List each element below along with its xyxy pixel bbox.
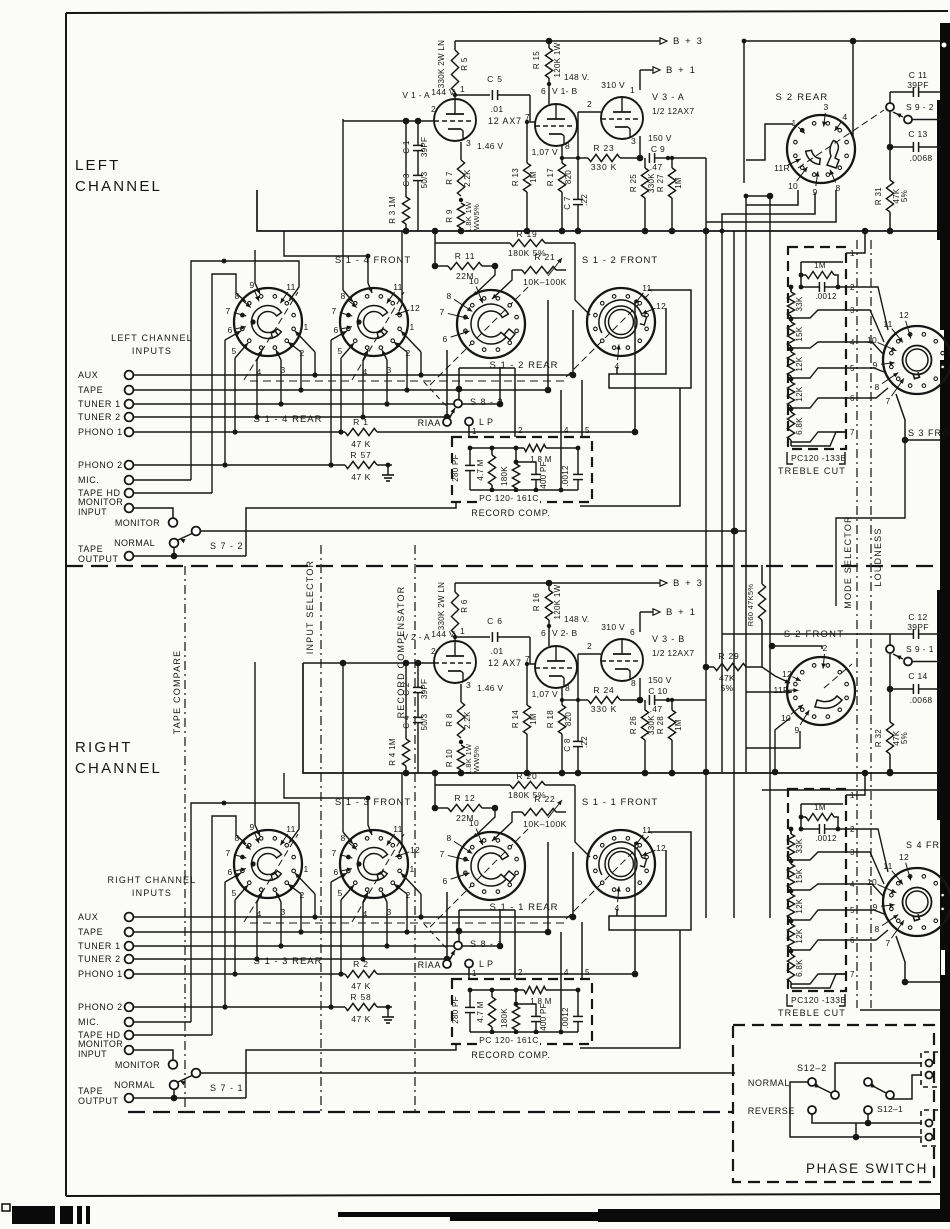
svg-text:R 58: R 58 — [350, 992, 371, 1002]
svg-text:3: 3 — [386, 365, 391, 375]
svg-text:B + 3: B + 3 — [673, 36, 703, 47]
svg-text:1: 1 — [791, 118, 796, 128]
svg-text:120K 1W: 120K 1W — [553, 42, 562, 77]
svg-text:148 V.: 148 V. — [564, 614, 590, 624]
svg-text:150 V: 150 V — [648, 133, 672, 143]
svg-text:OUTPUT: OUTPUT — [78, 554, 119, 564]
svg-text:MONITOR: MONITOR — [115, 518, 160, 528]
rotary switch S1-2 REAR — [457, 290, 525, 358]
trunk wire x734 — [733, 231, 735, 918]
svg-text:1,07 V: 1,07 V — [532, 689, 558, 699]
svg-text:1: 1 — [303, 322, 308, 332]
wire treble pin1 feed LEFT — [846, 231, 865, 253]
svg-text:1: 1 — [472, 969, 477, 978]
svg-text:9: 9 — [249, 822, 254, 832]
svg-text:TREBLE CUT: TREBLE CUT — [778, 466, 846, 476]
svg-text:2: 2 — [587, 641, 592, 651]
svg-text:TAPE: TAPE — [78, 927, 103, 937]
wire S1-2 outer loop — [580, 388, 680, 506]
svg-text:330K: 330K — [647, 715, 656, 735]
rotary switch S1-1 REAR — [457, 832, 525, 900]
loudness boundary line — [870, 240, 872, 1008]
capacitor .0012 RIGHT — [573, 1015, 583, 1017]
svg-text:11: 11 — [393, 824, 402, 834]
svg-text:12: 12 — [782, 669, 792, 679]
resistor R7 2.2K — [460, 142, 462, 160]
resistor 1M treble LEFT — [799, 273, 804, 278]
svg-text:C 5: C 5 — [487, 74, 503, 84]
svg-text:8: 8 — [874, 382, 879, 392]
wire input TAPE HD LEFT — [133, 492, 212, 494]
rotary switch S1-3 FRONT — [340, 830, 408, 898]
capacitor C10 .47 — [648, 695, 650, 705]
svg-text:11: 11 — [393, 282, 402, 292]
svg-text:RECORD COMP.: RECORD COMP. — [471, 1050, 550, 1060]
svg-text:R 20: R 20 — [516, 771, 537, 781]
svg-text:8: 8 — [234, 833, 239, 843]
svg-text:330K 2W LN: 330K 2W LN — [437, 40, 446, 88]
svg-text:R 31: R 31 — [874, 187, 883, 205]
svg-text:6: 6 — [442, 876, 447, 886]
record comp part number PC 120- 161C — [478, 492, 540, 504]
resistor R6 330K 2W LN — [454, 583, 456, 592]
svg-text:1.8 M: 1.8 M — [530, 455, 552, 464]
svg-text:B + 1: B + 1 — [666, 607, 696, 618]
capacitor C5 .01 coupling — [455, 94, 490, 96]
svg-text:6: 6 — [333, 867, 338, 877]
wire monitor feed S7-1 — [200, 1072, 735, 1074]
svg-text:11R: 11R — [774, 163, 790, 173]
wire TAPE HD riser RIGHT — [212, 816, 246, 1035]
wire TAPE HD riser LEFT — [212, 274, 246, 493]
svg-text:47K: 47K — [719, 673, 735, 683]
scan artifact right edge strip — [940, 23, 950, 1211]
wire S4 FRONT pin7 down — [896, 936, 905, 982]
rotary switch S1-3 REAR — [234, 830, 302, 898]
svg-text:6.8K: 6.8K — [795, 959, 804, 977]
svg-text:S 8 - 1: S 8 - 1 — [470, 939, 504, 949]
svg-text:PC 120- 161C: PC 120- 161C — [479, 1035, 539, 1045]
svg-text:WW5%: WW5% — [472, 746, 481, 772]
wire S1-1 front loop — [609, 832, 691, 930]
wire input AUX RIGHT — [133, 916, 573, 918]
svg-text:1/2 12AX7: 1/2 12AX7 — [652, 648, 694, 658]
svg-text:L P: L P — [479, 959, 493, 969]
wire y529 cross — [735, 530, 746, 532]
svg-text:S12–1: S12–1 — [877, 1104, 903, 1114]
wire grid V3-A — [578, 111, 601, 113]
svg-text:INPUTS: INPUTS — [132, 888, 172, 898]
svg-text:6: 6 — [227, 325, 232, 335]
svg-text:INPUT SELECTOR: INPUT SELECTOR — [305, 560, 315, 655]
svg-text:7: 7 — [225, 306, 230, 316]
svg-text:9: 9 — [794, 725, 799, 735]
svg-text:CHANNEL: CHANNEL — [75, 760, 162, 777]
svg-text:R 17: R 17 — [546, 168, 555, 186]
svg-text:OUTPUT: OUTPUT — [78, 1096, 119, 1106]
capacitor C12 39PF — [889, 634, 891, 645]
svg-text:6: 6 — [227, 867, 232, 877]
svg-text:V 3 - B: V 3 - B — [652, 634, 685, 644]
svg-text:39PF: 39PF — [907, 80, 929, 90]
wire pot feeds LEFT — [473, 266, 495, 296]
triode V1-B 12AX7 second half — [535, 104, 577, 146]
treble cut network PC120 -133B box — [788, 247, 846, 449]
svg-text:.0012: .0012 — [815, 292, 837, 301]
svg-text:7: 7 — [439, 307, 444, 317]
svg-text:330 K: 330 K — [591, 704, 617, 714]
svg-text:4: 4 — [256, 909, 261, 919]
rotary switch S1-2 FRONT — [587, 288, 655, 356]
ground below R57 — [387, 465, 389, 468]
scan artifact bottom-left bars — [12, 1206, 55, 1224]
svg-text:4.7 M: 4.7 M — [476, 1001, 485, 1023]
wire S9-1 out — [912, 661, 941, 663]
wire input MIC. RIGHT — [133, 1021, 191, 1023]
capacitor C13 .0068 — [889, 111, 891, 147]
wire input TAPE RIGHT — [133, 931, 548, 933]
wire input TUNER 1 RIGHT — [133, 945, 500, 947]
svg-text:330K 2W LN: 330K 2W LN — [437, 582, 446, 630]
svg-text:6.8K: 6.8K — [795, 417, 804, 435]
svg-text:330K: 330K — [647, 173, 656, 193]
resistor R5 330K 2W LN — [454, 41, 456, 50]
record compensator network PC 120- 161C box — [452, 979, 592, 1044]
resistor 180K RIGHT — [515, 990, 517, 1004]
resistor R3 1M — [402, 197, 409, 224]
rotary switch S3 FRONT — [883, 326, 950, 394]
switch S8-1 lever — [449, 950, 455, 961]
cathode bus right — [303, 663, 940, 773]
svg-text:MONITOR: MONITOR — [115, 1060, 160, 1070]
svg-text:148 V.: 148 V. — [564, 72, 590, 82]
svg-text:8: 8 — [874, 924, 879, 934]
triode V3-A half 12AX7 — [601, 97, 643, 139]
svg-text:4: 4 — [362, 909, 367, 919]
svg-text:1: 1 — [409, 864, 414, 874]
wire top feed B LEFT — [255, 250, 260, 294]
resistor R27 1M — [671, 158, 673, 168]
rotary switch S2 REAR — [787, 115, 855, 183]
wire top feed C RIGHT — [399, 773, 402, 853]
svg-text:PC 120- 161C: PC 120- 161C — [479, 493, 539, 503]
resistor R19 180K 5% — [434, 231, 436, 243]
svg-text:400 PF: 400 PF — [539, 461, 548, 489]
svg-text:C 10: C 10 — [648, 686, 667, 696]
resistor R25 330K — [641, 168, 648, 198]
svg-text:12: 12 — [656, 843, 666, 853]
svg-text:7: 7 — [885, 396, 890, 406]
wire treble top LEFT — [800, 262, 802, 287]
svg-text:1M: 1M — [529, 171, 538, 183]
svg-text:1.8 M: 1.8 M — [530, 997, 552, 1006]
svg-text:5%: 5% — [721, 683, 734, 693]
wire S3 to S2F — [836, 440, 905, 606]
wire cathode V3-B — [639, 678, 641, 700]
svg-text:12K: 12K — [795, 386, 804, 401]
svg-text:820: 820 — [564, 712, 573, 726]
svg-text:R 9: R 9 — [445, 209, 454, 223]
wires treble to S3 FRONT — [846, 287, 888, 330]
svg-text:RIAA: RIAA — [418, 960, 441, 970]
svg-text:2: 2 — [587, 99, 592, 109]
svg-text:7: 7 — [225, 848, 230, 858]
svg-text:12: 12 — [410, 845, 420, 855]
resistor R26 330K — [641, 710, 648, 740]
svg-text:3: 3 — [466, 138, 471, 148]
svg-text:.0012: .0012 — [561, 1007, 570, 1029]
switch S9-2 moving contact — [886, 103, 894, 111]
svg-text:S12–2: S12–2 — [797, 1063, 827, 1073]
svg-text:15K: 15K — [795, 326, 804, 341]
svg-text:10: 10 — [867, 335, 877, 345]
B+3 terminal left — [660, 38, 667, 44]
svg-text:6: 6 — [333, 325, 338, 335]
wire record comp pin4 RIGHT — [560, 979, 562, 1032]
svg-text:S 2 REAR: S 2 REAR — [776, 92, 829, 103]
svg-text:INPUT: INPUT — [78, 507, 107, 517]
svg-text:11F: 11F — [774, 685, 789, 695]
wire top feed A LEFT — [284, 231, 372, 293]
svg-text:3: 3 — [386, 907, 391, 917]
section divider dashed line lower — [128, 1111, 733, 1113]
wire input TAPE LEFT — [133, 389, 548, 391]
resistor 180K LEFT — [515, 448, 517, 462]
svg-text:RIAA: RIAA — [418, 418, 441, 428]
svg-text:.22: .22 — [580, 194, 589, 206]
svg-text:PHASE SWITCH: PHASE SWITCH — [806, 1161, 928, 1176]
svg-text:AUX: AUX — [78, 912, 98, 922]
svg-text:8: 8 — [446, 291, 451, 301]
svg-text:6: 6 — [541, 86, 546, 96]
svg-text:TUNER 2: TUNER 2 — [78, 412, 121, 422]
wire treble pin1 feed RIGHT — [846, 773, 865, 795]
svg-text:1: 1 — [409, 322, 414, 332]
wires treble to S4 FRONT — [846, 829, 888, 872]
svg-text:RECORD COMP.: RECORD COMP. — [471, 508, 550, 518]
svg-text:R 4 1M: R 4 1M — [388, 738, 397, 766]
reverse contacts — [808, 1106, 816, 1114]
svg-text:LEFT: LEFT — [75, 157, 120, 174]
svg-text:310 V: 310 V — [601, 80, 625, 90]
wire S2F lower pins — [775, 718, 790, 772]
record comp part number PC 120- 161C — [478, 1034, 540, 1046]
capacitor .0012 treble LEFT — [799, 285, 804, 290]
svg-text:12: 12 — [656, 301, 666, 311]
resistor R18 820 — [561, 688, 563, 705]
wire B+3 rail left — [455, 40, 660, 42]
border frame — [66, 11, 948, 13]
triode V2-A 12AX7 first half — [434, 641, 476, 683]
phase switch box — [733, 1025, 934, 1182]
svg-text:4.7 M: 4.7 M — [476, 459, 485, 481]
svg-text:C 9: C 9 — [651, 144, 665, 154]
wire input PHONO 1 RIGHT — [133, 973, 345, 975]
capacitor .0012 LEFT — [573, 473, 583, 475]
capacitor C6 .01 coupling — [455, 636, 490, 638]
svg-text:TUNER 1: TUNER 1 — [78, 399, 121, 409]
resistor R28 1M — [671, 700, 673, 710]
svg-text:2.2K: 2.2K — [463, 711, 472, 729]
resistor chain treble RIGHT — [790, 829, 792, 834]
resistor R32 47K 5% — [889, 689, 891, 722]
svg-text:50/3: 50/3 — [420, 171, 429, 188]
svg-text:R 26: R 26 — [629, 716, 638, 734]
svg-text:8: 8 — [565, 141, 570, 151]
wire input TUNER 2 LEFT — [133, 416, 447, 418]
svg-text:820: 820 — [564, 170, 573, 184]
resistor R15 120K 1W — [548, 41, 550, 48]
wire bus2 right tail — [762, 789, 940, 791]
svg-text:8: 8 — [234, 291, 239, 301]
capacitor 280PF LEFT — [465, 464, 475, 466]
svg-text:R 16: R 16 — [532, 593, 541, 611]
svg-text:47 K: 47 K — [351, 981, 371, 991]
svg-text:LOUDNESS: LOUDNESS — [873, 527, 883, 586]
svg-text:C 6: C 6 — [487, 616, 503, 626]
svg-text:12: 12 — [899, 852, 909, 862]
wire S2 rear pin1 left — [746, 124, 793, 160]
svg-text:PC120 -133B: PC120 -133B — [791, 453, 846, 463]
svg-text:S 9 - 1: S 9 - 1 — [906, 644, 934, 654]
svg-text:S 1 - 2 REAR: S 1 - 2 REAR — [489, 360, 558, 371]
svg-text:12K: 12K — [795, 928, 804, 943]
svg-text:1/2 12AX7: 1/2 12AX7 — [652, 106, 694, 116]
wire grid V1-A to selector — [343, 120, 434, 122]
svg-text:6: 6 — [630, 627, 635, 637]
svg-text:10K–100K: 10K–100K — [523, 819, 567, 829]
mode selector boundary line — [856, 240, 858, 1008]
svg-text:S 4 FR: S 4 FR — [906, 840, 940, 850]
svg-text:.47: .47 — [650, 704, 663, 714]
svg-text:S 7 - 1: S 7 - 1 — [210, 1083, 244, 1093]
triode V2-B 12AX7 second half — [535, 646, 577, 688]
svg-text:7: 7 — [439, 849, 444, 859]
switch S8-1 link — [456, 928, 463, 935]
svg-text:S 1 - 2 FRONT: S 1 - 2 FRONT — [582, 255, 658, 266]
treble part number PC120 -133B — [787, 452, 793, 464]
svg-text:4: 4 — [564, 426, 569, 435]
trunk wire x705 — [705, 158, 707, 918]
svg-text:MONITOR: MONITOR — [78, 497, 123, 507]
svg-text:TUNER 1: TUNER 1 — [78, 941, 121, 951]
resistor R9 1.8K WW — [457, 203, 464, 228]
svg-text:MONITOR: MONITOR — [78, 1039, 123, 1049]
svg-text:R 18: R 18 — [546, 710, 555, 728]
phase wires — [835, 1063, 922, 1091]
svg-text:LEFT CHANNEL: LEFT CHANNEL — [111, 333, 193, 343]
resistor 1.8M LEFT — [524, 444, 546, 451]
wire input TUNER 2 RIGHT — [133, 958, 447, 960]
capacitor 400PF LEFT — [516, 461, 536, 463]
record comp bottom rail RIGHT — [470, 1031, 578, 1033]
wire input AUX LEFT — [133, 374, 573, 376]
svg-text:12 AX7: 12 AX7 — [488, 116, 522, 126]
svg-text:5%: 5% — [900, 190, 909, 202]
svg-text:8: 8 — [340, 291, 345, 301]
svg-text:1M: 1M — [674, 719, 683, 731]
svg-text:C 12: C 12 — [908, 612, 927, 622]
svg-text:R 10: R 10 — [445, 749, 454, 767]
svg-text:7: 7 — [885, 938, 890, 948]
wire grid V3-B — [578, 653, 601, 655]
svg-text:TREBLE CUT: TREBLE CUT — [778, 1008, 846, 1018]
svg-text:R 23: R 23 — [593, 143, 614, 153]
svg-text:7: 7 — [525, 654, 530, 664]
svg-text:3: 3 — [466, 680, 471, 690]
svg-text:R 5: R 5 — [460, 57, 469, 71]
svg-text:NORMAL: NORMAL — [114, 538, 155, 548]
svg-text:R 15: R 15 — [532, 51, 541, 69]
svg-text:7: 7 — [850, 970, 855, 979]
svg-text:1,07 V: 1,07 V — [532, 147, 558, 157]
svg-text:C 8: C 8 — [563, 738, 572, 752]
svg-text:TAPE: TAPE — [78, 385, 103, 395]
svg-text:.47: .47 — [650, 162, 663, 172]
svg-text:R 19: R 19 — [516, 229, 537, 239]
svg-text:47 K: 47 K — [351, 472, 371, 482]
svg-text:R 7: R 7 — [445, 171, 454, 185]
svg-text:S 1 - 3 FRONT: S 1 - 3 FRONT — [335, 797, 411, 808]
svg-text:TAPE: TAPE — [78, 544, 103, 554]
wire S3 FRONT pin7 down — [896, 394, 905, 440]
wire pot feeds RIGHT — [473, 808, 495, 838]
wire S4 pin7 tail — [860, 1009, 940, 1011]
svg-text:INPUT: INPUT — [78, 1049, 107, 1059]
svg-text:C 11: C 11 — [909, 70, 928, 80]
wire top feed A RIGHT — [284, 773, 372, 835]
svg-text:12 AX7: 12 AX7 — [488, 658, 522, 668]
wire S2 rear pins down — [746, 190, 798, 205]
svg-text:S 1 - 1 FRONT: S 1 - 1 FRONT — [582, 797, 658, 808]
resistor R29 47K 5% — [706, 666, 714, 668]
svg-text:1: 1 — [850, 791, 855, 800]
svg-text:RECORD COMPENSATOR: RECORD COMPENSATOR — [396, 586, 406, 719]
capacitor C3 50/3 — [413, 174, 423, 176]
svg-text:1: 1 — [850, 249, 855, 258]
svg-text:B + 1: B + 1 — [666, 65, 696, 76]
svg-text:10: 10 — [867, 877, 877, 887]
capacitor C2 39PF — [413, 686, 423, 688]
svg-text:.0068: .0068 — [910, 695, 933, 705]
svg-text:TAPE: TAPE — [78, 1086, 103, 1096]
wire tape output S7-1 — [133, 1097, 246, 1099]
capacitor C8 .22 — [562, 699, 578, 701]
svg-text:PHONO 1: PHONO 1 — [78, 427, 123, 437]
svg-text:2.2K: 2.2K — [463, 169, 472, 187]
trunk wire x770 — [769, 196, 771, 918]
resistor R17 820 — [561, 146, 563, 163]
LP contact LEFT — [465, 418, 473, 426]
trunk wire x746 — [745, 196, 747, 772]
svg-text:S 1 - 4 FRONT: S 1 - 4 FRONT — [335, 255, 411, 266]
svg-text:V 2 - A: V 2 - A — [402, 632, 430, 642]
wire S9-2 out — [912, 119, 941, 121]
resistor R10 1.8K WW — [457, 745, 464, 770]
wire input PHONO 2 RIGHT — [133, 1006, 345, 1008]
svg-text:144 V: 144 V — [431, 87, 455, 97]
svg-text:10: 10 — [469, 818, 479, 828]
svg-text:180K: 180K — [500, 466, 509, 486]
svg-text:5: 5 — [231, 888, 236, 898]
svg-text:4: 4 — [256, 367, 261, 377]
svg-text:R 6: R 6 — [460, 599, 469, 613]
svg-text:50/3: 50/3 — [420, 713, 429, 730]
rotary switch S2 FRONT — [787, 657, 855, 725]
svg-text:4: 4 — [362, 367, 367, 377]
wire input PHONO 2 LEFT — [133, 464, 345, 466]
B+1 terminal right — [639, 612, 641, 632]
